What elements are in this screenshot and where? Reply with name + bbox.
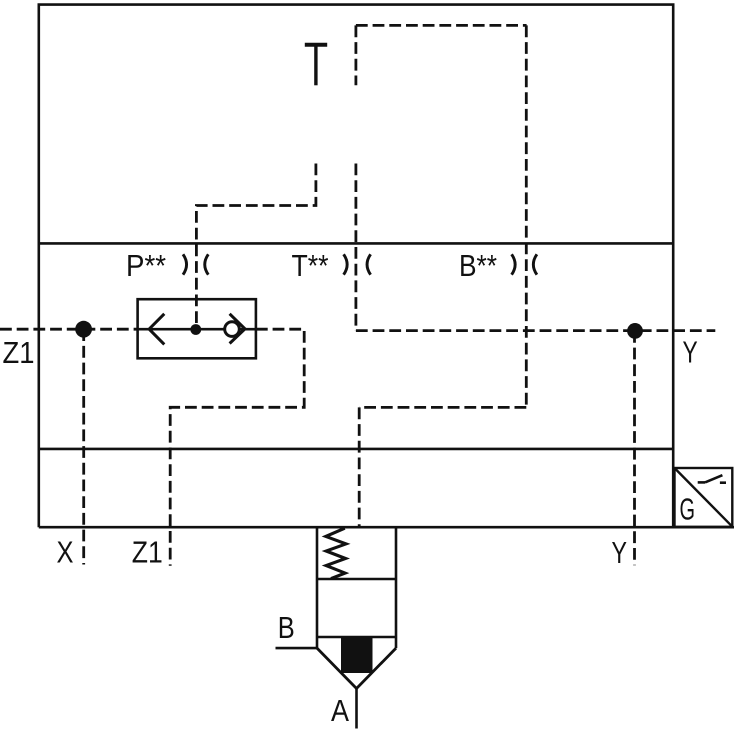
G switch box: [675, 468, 733, 527]
cartridge valve body left edge: [316, 527, 319, 648]
cover plate outline (left, top, right edges): [39, 5, 673, 528]
cartridge valve body right edge: [395, 527, 398, 648]
wire: Y pilot horizontal: [356, 329, 715, 332]
svg-text:T**: T**: [292, 248, 329, 283]
divider line lower: [39, 448, 673, 451]
junction Y: [627, 323, 643, 339]
check valve seat arrow: [230, 314, 245, 344]
svg-text:Y: Y: [683, 335, 698, 370]
svg-text:B**: B**: [459, 248, 497, 283]
svg-text:X: X: [57, 535, 74, 570]
wire: X drop from Z1 junction: [82, 329, 85, 564]
cartridge valve spring: [326, 528, 346, 578]
wire: top dashed header horizontal: [356, 24, 527, 27]
wire: T stub below top dashed header: [354, 25, 357, 85]
wire: T pilot to check valve: [196, 164, 316, 330]
svg-text:G: G: [680, 492, 696, 527]
cover plate bottom edge: [39, 526, 734, 529]
orifice mark at P: [183, 254, 208, 274]
svg-text:Y: Y: [612, 535, 628, 570]
wire: Y drop to bottom port: [633, 331, 636, 565]
wire: B pilot drop to cartridge valve: [358, 407, 361, 527]
svg-text:B: B: [278, 610, 295, 645]
svg-text:P**: P**: [126, 248, 166, 283]
port label T (drawn glyph): [305, 45, 327, 86]
check valve junction dot: [190, 324, 201, 335]
check valve left arrow: [149, 314, 164, 345]
cartridge valve internal line 2: [317, 636, 396, 639]
cartridge valve poppet (black): [341, 637, 373, 673]
wire: T column vertical: [354, 164, 357, 331]
svg-text:Z1: Z1: [132, 535, 163, 570]
check valve V1 box: [138, 299, 256, 358]
orifice mark at B: [512, 254, 537, 274]
port A line: [355, 689, 358, 729]
cartridge valve internal line 1: [317, 578, 396, 581]
orifice mark at T: [344, 254, 371, 274]
svg-text:Z1: Z1: [3, 335, 35, 370]
svg-text:A: A: [331, 693, 349, 728]
G box diagonal: [675, 469, 732, 527]
wire: Z1 path right of check valve: [170, 329, 304, 566]
check valve ball: [225, 322, 240, 337]
cartridge valve seat V: [317, 648, 396, 688]
check valve center line: [138, 328, 256, 331]
port B line: [276, 647, 318, 650]
wire: Z1 port horizontal left: [0, 328, 138, 331]
divider line upper: [39, 242, 673, 245]
junction Z1: [75, 321, 92, 338]
wire: B pilot vertical: [525, 25, 528, 407]
wire: B pilot horizontal: [359, 406, 526, 409]
G box switch symbol: [698, 475, 726, 483]
